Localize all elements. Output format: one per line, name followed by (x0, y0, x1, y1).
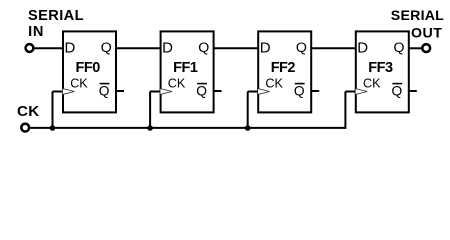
svg-text:Q: Q (392, 83, 403, 98)
svg-text:IN: IN (28, 24, 44, 40)
svg-text:FF1: FF1 (173, 60, 198, 76)
svg-text:Q: Q (198, 40, 209, 56)
svg-text:CK: CK (70, 77, 88, 91)
svg-text:FF3: FF3 (368, 60, 393, 76)
svg-text:CK: CK (265, 77, 283, 91)
svg-text:CK: CK (17, 103, 40, 120)
svg-text:Q: Q (99, 83, 110, 98)
svg-text:Q: Q (294, 83, 305, 98)
svg-text:FF0: FF0 (76, 60, 101, 76)
svg-text:SERIAL: SERIAL (28, 8, 84, 24)
svg-text:D: D (357, 40, 368, 57)
svg-text:OUT: OUT (411, 26, 442, 42)
svg-text:CK: CK (363, 77, 381, 91)
svg-text:D: D (162, 40, 173, 57)
svg-text:Q: Q (296, 40, 307, 56)
svg-text:D: D (65, 40, 76, 57)
svg-text:SERIAL: SERIAL (391, 8, 444, 24)
svg-text:Q: Q (101, 40, 112, 56)
svg-text:D: D (260, 40, 271, 57)
svg-text:FF2: FF2 (271, 60, 296, 76)
svg-text:CK: CK (168, 77, 186, 91)
svg-text:Q: Q (196, 83, 207, 98)
svg-text:Q: Q (394, 40, 405, 56)
